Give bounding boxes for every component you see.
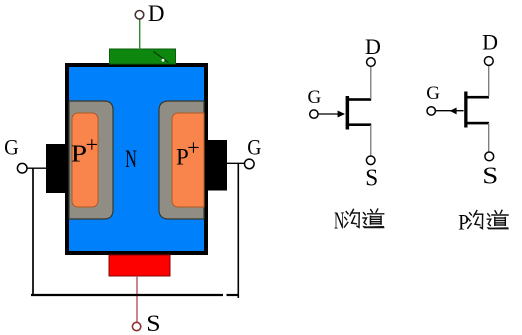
svg-text:S: S (482, 162, 498, 189)
svg-text:G: G (247, 134, 261, 159)
svg-text:N: N (125, 144, 137, 173)
svg-text:G: G (308, 87, 322, 108)
svg-text:D: D (148, 1, 165, 26)
svg-text:G: G (4, 135, 19, 160)
svg-text:+: + (187, 135, 199, 160)
svg-text:S: S (146, 311, 160, 335)
svg-text:S: S (365, 165, 378, 191)
svg-text:P: P (458, 209, 469, 235)
svg-text:D: D (482, 29, 498, 54)
svg-text:G: G (426, 83, 440, 104)
svg-text:D: D (365, 34, 381, 59)
svg-text:+: + (86, 132, 98, 157)
svg-text:P: P (71, 140, 87, 167)
svg-text:N: N (334, 208, 344, 235)
